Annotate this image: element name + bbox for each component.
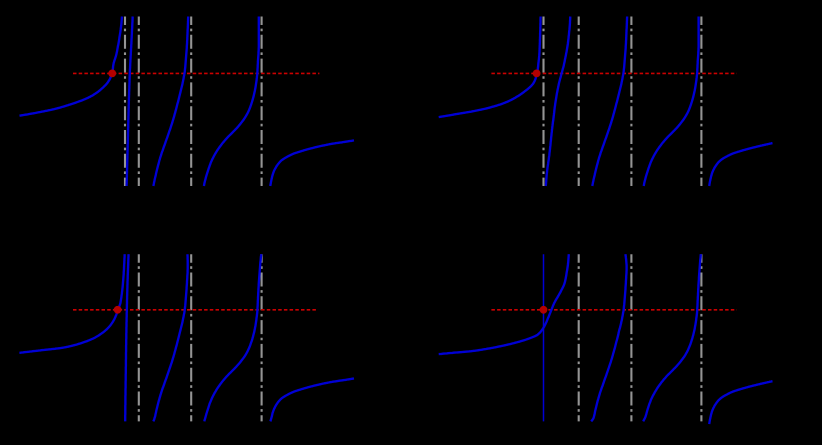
curve TR b3 xyxy=(644,17,699,187)
asymptote x=701.4 BR xyxy=(700,254,702,421)
asymptote x=261.6 TL xyxy=(261,17,263,187)
curve TR b2 xyxy=(592,17,627,187)
blue pole marker line BR xyxy=(543,254,545,421)
red level line TR xyxy=(491,72,736,74)
curve TL b1 xyxy=(127,17,133,187)
curve TR b4 xyxy=(709,143,772,186)
asymptote x=191.2 TL xyxy=(190,17,192,187)
asymptote x=261.6 BL xyxy=(261,254,263,421)
root marker TR xyxy=(533,70,541,78)
asymptote x=578.7 BR xyxy=(578,254,580,421)
curve TL b3 xyxy=(204,17,259,187)
asymptote x=631.4 TR xyxy=(630,17,632,187)
curve BL b0 xyxy=(19,254,124,353)
asymptote x=631.4 BR xyxy=(630,254,632,421)
root marker BR xyxy=(540,306,548,314)
asymptote x=125.0 TL xyxy=(124,17,126,187)
asymptote x=543.5 TR xyxy=(542,17,544,187)
curve BR b4 xyxy=(709,381,772,424)
curve TL b0 xyxy=(20,17,123,116)
red level line BL xyxy=(73,309,318,311)
asymptote x=138.8 BL xyxy=(138,254,140,421)
curve TR b1 xyxy=(546,17,571,187)
asymptote x=191.2 BL xyxy=(190,254,192,421)
asymptote x=138.8 TL xyxy=(138,17,140,187)
curve BR bm xyxy=(439,254,569,354)
curve BL b1 xyxy=(125,254,128,421)
curve TR b0 xyxy=(439,17,541,118)
curve BR b3 xyxy=(643,254,701,421)
red level line TL xyxy=(73,72,319,74)
curve BL b2 xyxy=(153,254,187,421)
asymptote x=578.7 TR xyxy=(578,17,580,187)
curve TL b4 xyxy=(270,140,354,186)
root marker BL xyxy=(114,306,122,314)
red level line BR xyxy=(491,309,736,311)
root marker TL xyxy=(108,70,116,78)
curve BR b2 xyxy=(591,254,626,421)
asymptote x=701.4 TR xyxy=(700,17,702,187)
curve BL b4 xyxy=(270,379,354,422)
curve BL b3 xyxy=(204,254,261,421)
curve TL b2 xyxy=(153,17,188,187)
